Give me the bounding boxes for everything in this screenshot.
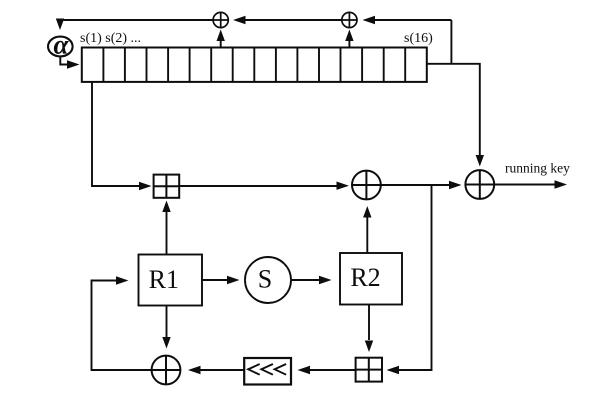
svg-text:S: S — [258, 265, 272, 294]
wire: s(1) cell down and right to adder B1 — [92, 82, 152, 190]
wire: adder B1 to xor X1 — [179, 182, 349, 190]
wire: rotate box to xor X3 — [188, 366, 244, 374]
wire: xor U2 to xor U1 — [233, 16, 342, 24]
svg-text:s(1) s(2) ...: s(1) s(2) ... — [80, 31, 141, 46]
register box R1 — [139, 255, 203, 306]
xor U1 (left feedback xor) — [213, 12, 228, 27]
wire: R1 up to adder B1 — [162, 201, 170, 255]
wire: feedback branch up from output line — [450, 20, 452, 64]
wire: running key output arrow — [494, 180, 567, 188]
svg-text:s(16): s(16) — [404, 31, 433, 46]
svg-text:R1: R1 — [149, 265, 179, 294]
wire: xor X3 feedback to R1 — [92, 276, 152, 370]
s-box S — [245, 257, 291, 303]
LFSR shift register — [82, 48, 427, 82]
adder B1 (boxed plus) — [154, 175, 180, 198]
svg-text:α: α — [54, 29, 70, 59]
wire: adder B2 to rotate box — [298, 366, 356, 374]
register box R2 — [340, 253, 402, 305]
wire: xor X1 to running-key xor X2 — [381, 181, 462, 189]
xor U2 (right feedback xor) — [342, 12, 357, 27]
wire: R1 to S — [202, 276, 240, 284]
alpha multiplier — [48, 29, 73, 59]
rotate box <<< — [244, 358, 291, 385]
xor X2 (running key output xor) — [465, 170, 494, 199]
wire: R2 down to adder B2 — [365, 305, 373, 353]
xor X3 (bottom feedback xor) — [152, 356, 181, 385]
wire: register tap up to xor U1 — [217, 30, 225, 48]
wire: alpha to register input — [60, 56, 79, 68]
svg-text:R2: R2 — [350, 263, 380, 292]
adder B2 (boxed plus) — [356, 358, 382, 382]
wire: xor U1 to alpha (left corner, arrow down) — [56, 19, 214, 31]
svg-text:running key: running key — [505, 161, 570, 176]
wire: R1 down to xor X3 — [162, 306, 170, 349]
wire: R2 up to xor X1 — [363, 206, 371, 253]
xor X1 (FSM output xor) — [352, 171, 381, 200]
wire: junction down to adder B2 — [387, 185, 432, 374]
wire: feedback from s(16) branch to xor U2 — [363, 16, 452, 24]
wire: S to R2 — [291, 276, 332, 284]
wire: register s(16) output to running-key xor — [427, 64, 484, 167]
wire: register tap up to xor U2 — [345, 30, 353, 48]
